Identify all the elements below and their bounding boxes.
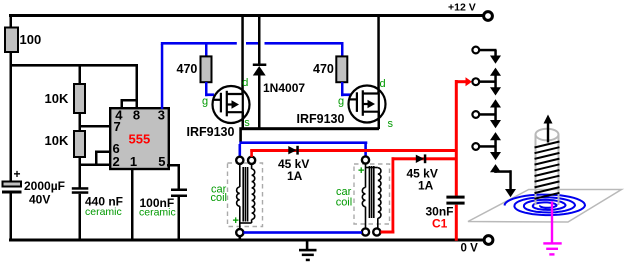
svg-text:d: d xyxy=(380,78,386,90)
wire blue drop to coil2 xyxy=(364,144,367,156)
tesla secondary winding xyxy=(535,142,560,199)
node coil2 bottom right terminal xyxy=(373,228,380,235)
wire M2 source lead xyxy=(378,112,381,130)
wire blue drop to coil1 xyxy=(239,144,242,156)
transistor Q1 IRF9130 xyxy=(213,86,250,123)
svg-text:C1: C1 xyxy=(432,217,448,231)
node gap terminal 1 xyxy=(472,47,479,54)
car coil 1 internals xyxy=(237,164,255,229)
wire pin6 bracket xyxy=(95,151,98,165)
wire below R100 xyxy=(10,52,13,182)
wire supply rail y64 xyxy=(10,64,139,67)
resistor R 100 xyxy=(5,28,18,53)
spark gap arrows xyxy=(490,56,501,173)
svg-text:2: 2 xyxy=(113,154,120,169)
svg-text:1A: 1A xyxy=(287,169,303,183)
wire pin1 down xyxy=(131,168,134,239)
wire 0V bottom rail xyxy=(9,239,483,242)
ground magenta xyxy=(543,242,561,255)
capacitor C 100nF xyxy=(171,189,187,192)
svg-text:5: 5 xyxy=(158,154,165,169)
wire below 2000uF xyxy=(10,194,13,240)
capacitor C 440nF xyxy=(72,187,89,190)
node gap terminal 2 xyxy=(472,78,479,85)
svg-text:0 V: 0 V xyxy=(461,243,479,255)
svg-text:10K: 10K xyxy=(45,133,69,148)
svg-text:10K: 10K xyxy=(45,91,69,106)
svg-text:g: g xyxy=(202,96,208,108)
wire blue pin3 riser xyxy=(161,44,164,109)
diode 1N4007 xyxy=(258,14,261,64)
tesla primary spiral xyxy=(505,195,586,216)
wire red bus vertical xyxy=(455,80,458,196)
svg-text:2000µF: 2000µF xyxy=(24,179,65,193)
wire blue drop to 470 #2 xyxy=(341,42,344,57)
svg-text:d: d xyxy=(242,77,248,89)
capacitor 2000uF xyxy=(3,182,22,187)
resistor R 10K lower xyxy=(74,131,85,157)
car coil 1 dashed box xyxy=(228,163,263,227)
node coil1 bottom terminal xyxy=(236,229,243,236)
wire to 10K top xyxy=(79,64,82,84)
svg-text:7: 7 xyxy=(114,119,121,134)
wire M2 drain from rail xyxy=(377,14,380,94)
node coil1 primary top terminal xyxy=(236,157,243,164)
svg-text:+: + xyxy=(358,165,364,177)
svg-text:+: + xyxy=(233,215,239,227)
wire blue bottom link xyxy=(244,231,363,234)
svg-text:40V: 40V xyxy=(29,193,50,207)
wire pin5 to 100nF xyxy=(167,164,180,167)
svg-text:ceramic: ceramic xyxy=(85,206,122,218)
transistor Q2 IRF9130 xyxy=(349,86,386,123)
op-amp U1 555 timer body xyxy=(110,108,169,169)
svg-text:8: 8 xyxy=(133,108,140,123)
svg-text:470: 470 xyxy=(313,62,334,76)
wire red coil1 horizontal xyxy=(250,149,455,152)
svg-text:1: 1 xyxy=(130,154,137,169)
node coil1 secondary top terminal xyxy=(248,157,255,164)
capacitor C1 30nF xyxy=(446,196,464,199)
tesla ground plate xyxy=(468,190,622,223)
wire +12V top rail xyxy=(9,14,483,17)
svg-text:coil: coil xyxy=(211,192,228,204)
svg-text:555: 555 xyxy=(129,132,151,147)
svg-text:s: s xyxy=(388,118,394,130)
wire blue 470#2 to gate xyxy=(341,82,344,96)
node gap terminal 4 xyxy=(472,143,479,150)
resistor R 470 #1 xyxy=(201,56,212,82)
node coil2 top terminal xyxy=(362,156,369,163)
node 0V terminal xyxy=(484,236,493,245)
wire pin7 xyxy=(79,125,110,128)
tesla top arrow xyxy=(547,123,549,143)
svg-text:470: 470 xyxy=(177,62,198,76)
wire common source horizontal xyxy=(239,127,379,130)
diode D 45kV #2 xyxy=(416,155,424,163)
diode D 45kV #1 xyxy=(288,146,296,154)
wire blue drop to 470 #1 xyxy=(205,42,208,57)
wire coil1 bottom to 0V xyxy=(239,236,242,240)
node coil2 bottom left terminal xyxy=(362,228,369,235)
svg-text:3: 3 xyxy=(158,108,165,123)
node gap terminal 3 xyxy=(472,111,479,118)
svg-text:g: g xyxy=(338,96,344,108)
wire M1 drain from rail xyxy=(241,14,244,94)
wire gap to primary xyxy=(494,170,511,173)
resistor R 470 #2 xyxy=(336,56,347,82)
svg-text:+: + xyxy=(14,167,21,181)
wire drop to blue node xyxy=(239,130,242,142)
svg-text:1A: 1A xyxy=(418,179,434,193)
wire blue horizontal xyxy=(161,42,237,45)
wire pin2 xyxy=(79,164,109,167)
svg-text:IRF9130: IRF9130 xyxy=(187,125,235,139)
wire red coil2 bottom xyxy=(381,231,395,234)
svg-text:IRF9130: IRF9130 xyxy=(297,112,345,126)
wire red coil1 secondary riser xyxy=(250,149,253,157)
wire blue 470#1 to gate xyxy=(205,82,208,96)
wire pins 4-8 bracket xyxy=(136,66,139,109)
svg-text:100: 100 xyxy=(20,32,42,47)
wire left vertical xyxy=(10,14,13,28)
wire red coil2 horizontal xyxy=(392,157,456,160)
tesla secondary cylinder xyxy=(536,129,559,205)
node +12V terminal xyxy=(484,12,493,21)
wire M1 source lead xyxy=(242,112,245,129)
svg-text:+12 V: +12 V xyxy=(448,2,476,14)
wire red arrow to gap 2 xyxy=(456,80,466,83)
svg-text:coil: coil xyxy=(336,196,353,208)
wire blue primary feed xyxy=(239,141,367,144)
svg-text:1N4007: 1N4007 xyxy=(263,81,305,95)
car coil 2 dashed box xyxy=(354,164,390,224)
wire between 10Ks xyxy=(79,113,82,131)
ground xyxy=(299,241,317,261)
car coil 2 internals xyxy=(362,164,381,228)
wire gap chain vertical xyxy=(494,50,497,57)
resistor R 10K upper xyxy=(74,84,85,113)
wire red coil2 riser xyxy=(392,157,395,233)
wire below 10K lower xyxy=(79,157,82,188)
wire magenta earth xyxy=(551,202,553,244)
svg-text:ceramic: ceramic xyxy=(139,207,176,219)
